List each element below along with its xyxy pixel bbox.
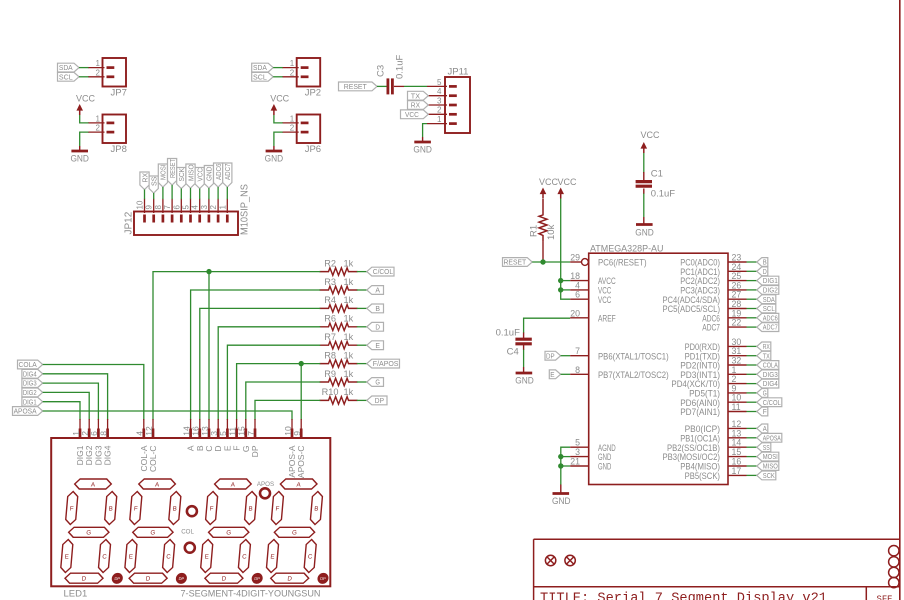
wire C/COL junction down to display pin 13 <box>208 272 210 420</box>
resistor R3 1k <box>320 277 358 294</box>
ground symbol (C4) <box>515 367 534 387</box>
net label DIG2 (U1 pin 26) <box>757 286 779 295</box>
svg-text:SCL: SCL <box>763 304 775 313</box>
svg-text:G: G <box>226 530 232 537</box>
svg-text:DIG3: DIG3 <box>23 379 37 388</box>
svg-text:1k: 1k <box>344 350 354 360</box>
net label APOSA (display) <box>13 407 43 416</box>
junction GND pin 3 <box>558 454 563 459</box>
svg-text:12: 12 <box>144 426 154 436</box>
junction C/COL net to display pin 13 <box>206 269 211 274</box>
net label RX (JP11) <box>408 101 429 110</box>
resistor R6 1k <box>320 314 358 331</box>
svg-text:1: 1 <box>218 205 227 210</box>
wire stub AVCC <box>561 280 571 282</box>
svg-text:DP: DP <box>254 576 260 581</box>
svg-text:G: G <box>292 530 298 537</box>
svg-text:RX: RX <box>140 173 149 183</box>
VCC symbol (JP8) <box>76 94 95 116</box>
net label RX (JP12 pin 10) <box>140 172 149 190</box>
wire SDA to JP2 pin 1 <box>273 67 283 69</box>
U1 pin 31 PD1(TXD) with net flag TX <box>685 346 758 361</box>
svg-text:F/APOS: F/APOS <box>373 359 399 368</box>
svg-text:MISO: MISO <box>763 462 778 471</box>
wire SCK to JP12 pin 6 <box>180 189 182 200</box>
net label B (U1 pin 23) <box>757 258 768 267</box>
svg-text:1k: 1k <box>344 369 354 379</box>
svg-text:GND: GND <box>205 167 214 181</box>
svg-text:1k: 1k <box>344 314 354 324</box>
LED1 digit 2 segments <box>124 479 196 584</box>
svg-text:JP7: JP7 <box>111 88 127 99</box>
svg-text:22: 22 <box>732 318 742 328</box>
svg-text:A: A <box>763 424 767 433</box>
svg-text:D: D <box>375 322 380 331</box>
svg-text:SDA: SDA <box>253 63 267 72</box>
svg-text:C1: C1 <box>651 169 663 180</box>
svg-text:A: A <box>375 286 380 295</box>
wire U1 ground pins <box>561 447 570 485</box>
wire RX to JP12 pin 10 <box>144 190 146 200</box>
net label SCL (JP2) <box>252 72 274 81</box>
U1 pin 11 PD7(AIN1) with net flag F <box>680 402 757 417</box>
svg-text:E: E <box>270 553 275 560</box>
wire AREF to C4 <box>524 318 571 333</box>
connector JP2 <box>282 58 321 99</box>
net label DP (R10) <box>367 396 387 405</box>
svg-text:1: 1 <box>437 115 442 124</box>
svg-text:R4: R4 <box>324 295 336 305</box>
svg-text:APOS: APOS <box>257 481 274 488</box>
wire VCC to JP12 pin 4 <box>199 189 201 200</box>
svg-text:1: 1 <box>96 115 101 124</box>
wire DIG3 to display pin column x=98.4 <box>43 383 99 420</box>
svg-text:DP: DP <box>546 351 555 360</box>
svg-text:PD7(AIN1): PD7(AIN1) <box>680 407 720 417</box>
net label RESET (JP11) <box>339 82 378 91</box>
wire COLA to display pin column x=143.8 <box>43 365 144 421</box>
svg-text:DIG2: DIG2 <box>763 286 778 295</box>
U1 pin 22 ADC7 with net flag ADC7 <box>702 318 757 333</box>
net label SS (JP12 pin 9) <box>149 176 158 193</box>
svg-text:B: B <box>108 505 113 512</box>
title block box <box>534 539 900 600</box>
wire stub GND pin 21 <box>561 465 570 467</box>
svg-text:ATMEGA328P-AU: ATMEGA328P-AU <box>590 244 664 255</box>
net label E (R7) <box>367 341 384 350</box>
svg-text:DIG4: DIG4 <box>23 369 37 378</box>
svg-text:AREF: AREF <box>598 313 616 323</box>
svg-text:COL-C: COL-C <box>148 446 158 472</box>
LED1 apostrophe dot APOS <box>257 481 274 498</box>
svg-text:0.1uF: 0.1uF <box>651 189 675 200</box>
svg-text:JP12: JP12 <box>124 211 135 234</box>
net label A (U1 pin 12) <box>757 424 768 433</box>
wire SS to JP12 pin 9 <box>153 193 155 199</box>
svg-text:3: 3 <box>437 96 442 105</box>
svg-text:RX: RX <box>763 342 770 351</box>
U1 pin 18 AVCC <box>570 271 616 286</box>
wire R6 right to net flag D <box>357 326 367 328</box>
svg-text:SCK: SCK <box>763 471 775 480</box>
svg-text:GND: GND <box>265 154 284 165</box>
svg-text:1: 1 <box>96 59 101 68</box>
wire C1 to ground <box>643 194 645 218</box>
svg-text:PC6(/RESET): PC6(/RESET) <box>598 258 647 268</box>
U1 pin 29 PC6(/RESET) <box>570 253 646 268</box>
net label VCC (JP12 pin 4) <box>195 167 204 188</box>
svg-text:F: F <box>763 407 768 416</box>
svg-text:0.1uF: 0.1uF <box>395 55 406 79</box>
svg-text:RX: RX <box>411 101 420 110</box>
svg-text:C/COL: C/COL <box>763 398 781 407</box>
net label DIG1 (display) <box>22 397 43 406</box>
wire R3 left to display pin column x=190.6 <box>191 290 321 420</box>
svg-text:JP8: JP8 <box>111 144 127 155</box>
svg-text:JP2: JP2 <box>305 88 321 99</box>
U1 pin 21 GND <box>570 457 611 472</box>
LED1 digit 3 segments <box>199 479 271 584</box>
svg-text:1k: 1k <box>344 295 354 305</box>
svg-text:1k: 1k <box>344 387 354 397</box>
wire R6 left to display pin column x=218.2 <box>218 327 320 420</box>
net label SDA (JP2) <box>252 63 274 72</box>
ground symbol (JP6) <box>265 146 284 165</box>
svg-text:1k: 1k <box>344 332 354 342</box>
svg-text:8: 8 <box>154 205 163 210</box>
svg-text:JP11: JP11 <box>448 67 469 78</box>
svg-text:C/COL: C/COL <box>373 267 393 276</box>
svg-text:E: E <box>550 370 554 379</box>
U1 pin 23 PC0(ADC0) with net flag B <box>680 253 757 268</box>
svg-text:GND: GND <box>552 496 571 507</box>
svg-text:DIG3: DIG3 <box>763 370 778 379</box>
net label D (R6) <box>367 322 384 331</box>
capacitor C1 0.1uF <box>636 169 676 200</box>
VCC symbol (JP6) <box>270 94 289 116</box>
junction AVCC <box>558 278 563 283</box>
svg-text:MISO: MISO <box>186 164 195 181</box>
U1 pin 25 PC2(ADC2) with net flag DIG1 <box>680 271 757 286</box>
net label APOSA (U1 pin 13) <box>757 433 782 442</box>
svg-text:2: 2 <box>96 68 101 77</box>
wire VCC to JP6 pin 1 <box>274 115 283 123</box>
net label DP (U1 pin 7) <box>545 351 561 360</box>
svg-text:M10SIP_NS: M10SIP_NS <box>240 184 251 235</box>
net label COLA (display) <box>18 360 43 369</box>
U1 pin 5 AGND <box>570 438 616 453</box>
net label DIG1 (U1 pin 25) <box>757 276 779 285</box>
svg-text:1k: 1k <box>344 277 354 287</box>
svg-text:4: 4 <box>437 87 442 96</box>
svg-text:6: 6 <box>575 290 580 300</box>
wire ADC7 to JP12 pin 1 <box>226 187 228 199</box>
IC U1 ATMEGA328P-AU body <box>589 244 728 485</box>
U1 pin 13 PB1(OC1A) with net flag APOSA <box>680 428 757 443</box>
ground symbol (C1) <box>635 217 654 239</box>
resistor R10 1k <box>320 387 358 404</box>
wire GND to JP12 pin 3 <box>208 188 210 199</box>
svg-text:5: 5 <box>437 78 442 87</box>
svg-text:DP: DP <box>178 576 184 581</box>
svg-text:7: 7 <box>163 205 172 210</box>
U1 pin 3 GND <box>570 447 611 462</box>
U1 pin 4 VCC <box>570 280 611 295</box>
svg-text:8: 8 <box>98 431 108 436</box>
svg-text:APOSA: APOSA <box>763 433 781 442</box>
svg-text:9: 9 <box>145 205 154 210</box>
svg-text:1: 1 <box>290 59 295 68</box>
svg-text:GND: GND <box>413 145 432 156</box>
net label C/COL (U1 pin 10) <box>757 398 782 407</box>
svg-text:17: 17 <box>732 466 742 476</box>
svg-text:R1: R1 <box>529 225 540 237</box>
wire GND to JP6 pin 2 <box>274 132 283 146</box>
net label DIG3 (display) <box>22 379 43 388</box>
wire R9 left to display pin column x=245.8 <box>246 382 320 420</box>
VCC symbol (C1) <box>641 130 660 153</box>
net label G (R9) <box>367 378 384 387</box>
svg-text:1: 1 <box>290 115 295 124</box>
net label ADC7 (U1 pin 22) <box>757 323 779 332</box>
svg-text:MOSI: MOSI <box>763 452 778 461</box>
svg-text:0.1uF: 0.1uF <box>496 328 520 339</box>
net label E (U1 pin 8) <box>549 370 560 379</box>
wire VCC to U1 power pins <box>561 199 571 300</box>
connector JP7 <box>88 58 127 99</box>
junction VCC pin 4 <box>558 287 563 292</box>
VCC symbol (U1 power) <box>557 177 576 199</box>
wire R9 right to net flag G <box>357 381 367 383</box>
svg-text:DP: DP <box>250 445 260 457</box>
net label SDA (U1 pin 27) <box>757 295 776 304</box>
svg-text:C3: C3 <box>376 65 387 77</box>
svg-text:RESET: RESET <box>344 82 368 91</box>
net label MISO (JP12 pin 5) <box>186 164 195 188</box>
mounting hole marker 2 <box>565 555 575 565</box>
wire R8 right to net flag F/APOS <box>357 363 367 365</box>
svg-text:SDA: SDA <box>59 63 73 72</box>
svg-text:APOS-C: APOS-C <box>296 446 306 479</box>
LED1 digit 1 segments <box>59 479 131 584</box>
svg-text:TX: TX <box>763 351 770 360</box>
svg-text:DIG4: DIG4 <box>763 379 778 388</box>
net label RESET (JP12 pin 7) <box>168 159 177 186</box>
wire C3 to JP11 pin 5 <box>394 85 404 87</box>
U1 pin 14 PB2(SS/OC1B) with net flag SS <box>667 438 757 453</box>
svg-text:SCL: SCL <box>59 72 73 81</box>
svg-text:VCC: VCC <box>405 110 419 119</box>
svg-text:SCL: SCL <box>253 72 267 81</box>
wire SCL to JP7 pin 2 <box>79 76 89 78</box>
resistor R8 1k <box>320 350 358 367</box>
resistor R1 10k <box>529 199 558 242</box>
net label COLA (U1 pin 32) <box>757 361 779 370</box>
U1 pin 1 PD3(INT1) with net flag DIG3 <box>680 365 757 380</box>
svg-text:LED1: LED1 <box>64 589 88 600</box>
svg-text:PB7(XTAL2/TOSC2): PB7(XTAL2/TOSC2) <box>598 370 669 380</box>
svg-text:E: E <box>64 553 69 560</box>
svg-text:ADC6: ADC6 <box>763 313 778 322</box>
svg-text:TITLE: Serial 7 Segment Displa: TITLE: Serial 7 Segment Display v21 <box>540 591 827 600</box>
svg-text:ADC7: ADC7 <box>702 323 720 333</box>
net label F (U1 pin 11) <box>757 407 768 416</box>
U1 pin 17 PB5(SCK) with net flag SCK <box>685 466 758 481</box>
svg-text:21: 21 <box>570 457 580 467</box>
svg-text:R9: R9 <box>324 369 336 379</box>
svg-text:6: 6 <box>172 205 181 210</box>
wire R2 left to display pin column x=153.0 <box>153 272 320 420</box>
svg-text:R8: R8 <box>324 350 336 360</box>
svg-text:R7: R7 <box>324 332 336 342</box>
svg-text:PB5(SCK): PB5(SCK) <box>685 471 720 481</box>
net label DIG3 (U1 pin 1) <box>757 370 779 379</box>
svg-text:VCC: VCC <box>270 94 289 105</box>
wire DIG4 to display pin column x=107.6 <box>43 374 108 420</box>
net label DIG4 (U1 pin 2) <box>757 379 779 388</box>
net label SCK (JP12 pin 6) <box>177 168 186 189</box>
U1 pin 2 PD4(XCK/T0) with net flag DIG4 <box>671 374 757 389</box>
resistor R4 1k <box>320 295 358 312</box>
svg-text:9: 9 <box>292 431 302 436</box>
net label TX (JP11) <box>408 91 429 100</box>
U1 pin 32 PD2(INT0) with net flag COLA <box>680 356 757 371</box>
svg-text:COLA: COLA <box>763 361 778 370</box>
svg-text:GND: GND <box>635 228 654 239</box>
wire R1 down to RESET net <box>542 242 544 262</box>
capacitor C4 0.1uF <box>496 328 532 358</box>
svg-text:VCC: VCC <box>641 130 660 141</box>
U1 pin 30 PD0(RXD) with net flag RX <box>685 337 758 352</box>
connector JP12 <box>124 199 239 235</box>
7-segment display LED1 body <box>51 438 330 600</box>
svg-text:C4: C4 <box>507 347 519 358</box>
wire SCL to JP2 pin 2 <box>273 76 283 78</box>
svg-text:DP: DP <box>320 576 326 581</box>
svg-text:PB6(XTAL1/TOSC1): PB6(XTAL1/TOSC1) <box>598 351 669 361</box>
svg-text:GND: GND <box>598 462 611 472</box>
svg-text:1k: 1k <box>344 258 354 268</box>
svg-text:TX: TX <box>411 91 420 100</box>
svg-text:DP: DP <box>375 396 384 405</box>
wire GND to JP8 pin 2 <box>80 132 89 146</box>
svg-text:7-SEGMENT-4DIGIT-YOUNGSUN: 7-SEGMENT-4DIGIT-YOUNGSUN <box>181 589 321 600</box>
wire MOSI to JP12 pin 8 <box>162 187 164 199</box>
net label F/APOS (R8) <box>367 359 400 368</box>
svg-text:R6: R6 <box>324 314 336 324</box>
svg-text:11: 11 <box>732 402 741 412</box>
wire APOSA to display pin column x=292.0 <box>43 411 292 420</box>
net label D (U1 pin 24) <box>757 267 768 276</box>
wire JP11 pin 1 to ground <box>423 124 427 137</box>
U1 pin 28 PC5(ADC5/SCL) with net flag SCL <box>663 299 758 314</box>
net label ADC6 (JP12 pin 2) <box>214 163 223 187</box>
svg-text:E: E <box>375 341 380 350</box>
wire F/APOS junction down to display pin 9 <box>300 364 302 420</box>
svg-text:10: 10 <box>136 200 145 209</box>
net label DIG4 (display) <box>22 369 43 378</box>
svg-text:7: 7 <box>575 346 580 356</box>
resistor R7 1k <box>320 332 358 349</box>
svg-text:8: 8 <box>575 365 580 375</box>
U1 pin 26 PC3(ADC3) with net flag DIG2 <box>680 280 757 295</box>
wire E to U1 pin 8 <box>561 373 571 375</box>
net label RX (U1 pin 30) <box>757 342 771 351</box>
U1 pin 6 VCC <box>570 290 611 305</box>
svg-text:29: 29 <box>570 253 580 263</box>
wire VCC to JP8 pin 1 <box>80 115 89 123</box>
svg-text:GND: GND <box>515 376 534 387</box>
svg-text:ADC6: ADC6 <box>214 164 223 181</box>
net label SS (U1 pin 14) <box>757 443 771 452</box>
svg-text:4: 4 <box>191 205 200 210</box>
junction GND pin 21 <box>558 463 563 468</box>
wire R4 left to display pin column x=199.8 <box>200 308 320 420</box>
U1 pin 8 PB7(XTAL2/TOSC2) <box>570 365 669 380</box>
wire RESET to JP12 pin 7 <box>171 185 173 199</box>
wire MISO to JP12 pin 5 <box>190 188 192 199</box>
svg-text:B: B <box>375 304 380 313</box>
connector JP8 <box>88 115 127 156</box>
display LED1 pin leads <box>71 419 302 438</box>
U1 pin 15 PB3(MOSI/OC2) with net flag MOSI <box>663 447 758 462</box>
net label SDA (JP7) <box>58 63 80 72</box>
wire R10 left to display pin column x=255.0 <box>255 400 320 420</box>
ground symbol (U1) <box>552 485 571 508</box>
net label B (R4) <box>367 304 384 313</box>
svg-text:20: 20 <box>570 308 580 318</box>
wire C4 to ground <box>523 350 525 368</box>
wire R3 right to net flag A <box>357 289 367 291</box>
U1 pin 20 AREF <box>570 308 616 323</box>
svg-text:7: 7 <box>246 431 256 436</box>
schematic frame right border <box>899 0 901 600</box>
mounting hole marker 1 <box>545 555 555 565</box>
svg-text:R10: R10 <box>322 387 339 397</box>
ground symbol (JP11) <box>413 137 432 156</box>
wire R2 right to net flag C/COL <box>357 271 367 273</box>
U1 pin 7 PB6(XTAL1/TOSC1) <box>570 346 669 361</box>
net label MOSI (U1 pin 15) <box>757 452 779 461</box>
U1 pin 10 PD6(AIN0) with net flag C/COL <box>680 393 757 408</box>
net label SCL (JP7) <box>58 72 80 81</box>
svg-text:SDA: SDA <box>763 295 775 304</box>
svg-text:G: G <box>150 530 156 537</box>
U1 pin 16 PB4(MISO) with net flag MISO <box>680 457 757 472</box>
svg-text:2: 2 <box>96 124 101 133</box>
VCC symbol (R1) <box>539 177 558 199</box>
U1 pin 12 PB0(ICP) with net flag A <box>685 419 758 434</box>
net label ADC7 (JP12 pin 1) <box>223 163 232 187</box>
resistor R2 1k <box>320 258 358 275</box>
svg-text:JP6: JP6 <box>305 144 321 155</box>
junction RESET/R1 <box>540 259 545 264</box>
svg-text:SCK: SCK <box>177 168 186 182</box>
svg-text:COL: COL <box>181 529 194 536</box>
svg-text:3: 3 <box>200 205 209 210</box>
wire stub VCC pin 4 <box>561 289 571 291</box>
svg-text:E: E <box>128 553 133 560</box>
svg-text:VCC: VCC <box>196 167 205 181</box>
net label SCL (U1 pin 28) <box>757 304 776 313</box>
connector JP11 <box>427 67 470 134</box>
wire R4 right to net flag B <box>357 307 367 309</box>
net label VCC (JP11) <box>401 110 429 119</box>
svg-text:VCC: VCC <box>558 177 577 188</box>
svg-text:B: B <box>763 258 767 267</box>
wire RESET to capacitor C3 <box>377 85 387 87</box>
capacitor C3 <box>376 55 406 95</box>
